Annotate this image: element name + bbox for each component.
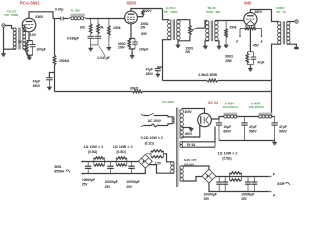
capacitor 10000uF (241, 177, 257, 201)
wire (205, 41, 209, 46)
wire (22, 25, 24, 27)
wire (131, 9, 163, 12)
transformer T4 F2357 (278, 21, 290, 44)
ground (156, 74, 160, 76)
wire (250, 30, 260, 52)
label RCA-5691 (20, 0, 41, 5)
svg-text:250kΩ: 250kΩ (59, 59, 69, 63)
svg-text:47μF: 47μF (33, 80, 41, 84)
wire (163, 9, 170, 20)
capacitor 100uF (132, 39, 148, 52)
label 845F (277, 182, 290, 186)
wire (149, 165, 174, 174)
svg-text:750 : 500K: 750 : 500K (4, 13, 19, 17)
wire (54, 65, 56, 92)
svg-text:3K : 16: 3K : 16 (276, 10, 286, 14)
svg-text:FL-289: FL-289 (71, 8, 80, 12)
svg-text:25V: 25V (241, 197, 247, 201)
svg-text:2.6V: 2.6V (30, 33, 37, 37)
resistor 2.5kohm 50W (198, 73, 218, 82)
wire (182, 166, 210, 181)
wire (27, 52, 33, 57)
fuse (144, 124, 168, 127)
label TK527 (4, 9, 19, 16)
ground (272, 142, 276, 144)
arrow (81, 160, 83, 162)
ground (176, 45, 180, 47)
wire (249, 65, 251, 69)
wire (82, 161, 139, 163)
potentiometer 150ohm (185, 25, 196, 54)
svg-text:400V: 400V (185, 132, 193, 136)
wire B rail2 (55, 91, 272, 93)
label 7.5V (155, 161, 162, 165)
transformer T1 TK527 (13, 28, 26, 50)
label 6550 (127, 1, 137, 6)
capacitor 47uF 450V (146, 67, 163, 76)
resistor 1ohm pair (113, 145, 133, 166)
svg-text:480V: 480V (254, 10, 263, 14)
svg-text:GZ 34: GZ 34 (208, 101, 219, 105)
svg-text:25V: 25V (105, 185, 111, 189)
wire (237, 116, 259, 118)
capacitor 47uF 500V (241, 117, 257, 141)
ground (217, 47, 221, 49)
svg-text:1Ω 10W × 2: 1Ω 10W × 2 (83, 145, 103, 149)
choke L2 A-4004 (249, 102, 272, 118)
wire (287, 44, 297, 46)
label TB-46 (206, 6, 220, 14)
ground (89, 48, 93, 50)
transformer T5 core (176, 108, 178, 188)
resistor 3K (18, 40, 28, 52)
arrow (81, 172, 83, 174)
ground (27, 57, 31, 59)
wire (29, 12, 53, 19)
wire (163, 40, 171, 81)
ground (294, 47, 298, 50)
transformer T2 A-4714 (168, 19, 181, 40)
wire (82, 168, 146, 173)
output terminal (295, 20, 298, 23)
T5 heater winding L (171, 162, 175, 174)
ground (203, 46, 207, 48)
svg-text:5691: 5691 (54, 165, 61, 169)
svg-text:0.2Ω 10W × 2: 0.2Ω 10W × 2 (141, 136, 163, 140)
wire (197, 21, 208, 29)
svg-text:(0.1Ω): (0.1Ω) (145, 142, 154, 146)
bridge B1 (138, 154, 152, 168)
svg-text:0.47μ: 0.47μ (55, 8, 63, 12)
svg-text:2.5kΩ 50W: 2.5kΩ 50W (198, 73, 217, 77)
wire 400V tap2 (182, 125, 200, 137)
svg-text:750Ω : 2W: 750Ω : 2W (206, 10, 220, 14)
ground (224, 45, 228, 47)
wire (23, 49, 29, 57)
capacitor 47uF 500V (271, 117, 287, 141)
capacitor 10000uF (82, 162, 95, 187)
wire (164, 154, 175, 162)
wire (177, 20, 190, 26)
wire B rail1 (163, 80, 272, 82)
wire (129, 48, 135, 55)
svg-text:320V: 320V (144, 9, 153, 13)
svg-text:F: F (273, 193, 275, 197)
svg-text:PC-3004: PC-3004 (162, 100, 174, 104)
wire (54, 19, 56, 56)
AC plug (141, 115, 144, 127)
T5 5V winding (180, 142, 183, 148)
wire (215, 41, 219, 47)
wire (168, 116, 172, 126)
resistor 10k (80, 19, 92, 34)
svg-text:5K : 750Ω: 5K : 750Ω (164, 10, 178, 14)
capacitor 10000uF (245, 177, 251, 192)
svg-text:AC 100V: AC 100V (148, 119, 162, 123)
wire (3, 27, 5, 53)
svg-text:10k: 10k (80, 26, 86, 30)
svg-text:500V: 500V (249, 129, 258, 133)
svg-text:1Ω 10W × 2: 1Ω 10W × 2 (113, 145, 133, 149)
inductor FL-289 (68, 8, 86, 19)
capacitor 10000uF (204, 177, 229, 201)
svg-text:RCA-5691: RCA-5691 (20, 0, 41, 5)
svg-text:400V: 400V (184, 110, 192, 114)
wire (211, 117, 224, 120)
wire 400V tap (182, 109, 205, 115)
svg-text:845: 845 (244, 1, 252, 6)
svg-text:10000μF: 10000μF (82, 178, 95, 182)
ground (1, 54, 5, 56)
capacitor 47uF (247, 52, 264, 65)
svg-text:10000μF: 10000μF (126, 180, 139, 184)
svg-text:100μF: 100μF (36, 47, 45, 51)
resistor 250kohm (53, 55, 69, 65)
wire (209, 183, 269, 192)
tube V4 GZ34 (198, 113, 212, 127)
ground (107, 48, 111, 50)
capacitor 0.47uF (53, 8, 68, 21)
svg-text:F: F (273, 172, 275, 176)
svg-text:20W: 20W (118, 45, 124, 49)
ground (47, 87, 51, 89)
svg-text:450V: 450V (146, 72, 154, 76)
label A-4714 (164, 6, 178, 14)
capacitor 10000uF (216, 177, 222, 192)
svg-text:0.038μF: 0.038μF (67, 36, 79, 40)
svg-text:100μF: 100μF (139, 47, 148, 51)
wire (178, 35, 190, 45)
svg-text:600Ω: 600Ω (225, 55, 233, 59)
svg-text:250k: 250k (113, 26, 120, 30)
svg-text:845F: 845F (277, 182, 284, 186)
wire (246, 24, 255, 28)
wire (27, 32, 33, 41)
wire ground rail (219, 141, 275, 143)
wire F left (236, 29, 241, 45)
resistor 600ohm 20W (225, 52, 253, 65)
label AC 100V (148, 119, 162, 123)
svg-text:600V: 600V (223, 129, 232, 133)
input terminal J1 (2, 24, 5, 27)
svg-text:F: F (236, 40, 238, 44)
svg-text:10H 200mA: 10H 200mA (249, 105, 265, 109)
capacitor 10uF 600V (216, 119, 232, 141)
svg-text:25V: 25V (82, 183, 88, 187)
svg-text:10H 200mA: 10H 200mA (223, 105, 239, 109)
svg-text:(0.5Ω): (0.5Ω) (222, 157, 231, 161)
capacitor 47uF 450V (33, 73, 55, 89)
ground (130, 56, 134, 58)
choke L1 A-4004 (223, 102, 239, 118)
svg-text:F: F (261, 40, 263, 44)
label 2.6V (30, 33, 37, 37)
resistor 5k (97, 19, 104, 34)
svg-text:25V: 25V (126, 185, 132, 189)
svg-text:450V: 450V (33, 84, 41, 88)
svg-text:47μF: 47μF (257, 61, 264, 65)
label F2357 (276, 6, 286, 14)
tube V1 5691 (22, 18, 36, 32)
resistor 1ohm pair (83, 145, 104, 166)
svg-text:2W: 2W (185, 50, 190, 54)
label PC-3004 (162, 100, 174, 104)
ground (248, 69, 252, 71)
wire (86, 18, 124, 20)
svg-text:10000μF: 10000μF (105, 180, 118, 184)
svg-text:0.047μF: 0.047μF (97, 56, 109, 60)
tube V2 6550 (125, 11, 138, 24)
svg-text:250k: 250k (229, 25, 236, 29)
svg-text:10000μF: 10000μF (204, 192, 217, 196)
svg-text:85V: 85V (141, 32, 148, 36)
arrow (269, 172, 274, 177)
T5 HV secondary (180, 110, 184, 139)
svg-text:45V: 45V (253, 44, 260, 48)
resistor 100ohm (137, 9, 152, 30)
svg-text:7.5V: 7.5V (155, 161, 162, 165)
label 6.3V (184, 158, 196, 167)
ground (189, 129, 193, 131)
svg-text:500V: 500V (279, 129, 288, 133)
resistor 0.2ohm pair (141, 136, 164, 158)
capacitor 100uF (30, 41, 46, 56)
svg-text:47μF: 47μF (279, 125, 287, 129)
svg-text:47μF: 47μF (249, 125, 257, 129)
capacitor 10000uF (105, 162, 118, 189)
label 845 (244, 1, 252, 6)
capacitor 0.047uF (91, 34, 110, 60)
svg-text:1Ω 10W × 2: 1Ω 10W × 2 (218, 151, 238, 155)
T5 845 winding (180, 166, 184, 182)
wire (215, 20, 244, 22)
svg-text:25V: 25V (204, 197, 210, 201)
svg-text:10μF: 10μF (223, 125, 231, 129)
wire (287, 21, 295, 23)
T5 primary (172, 117, 174, 124)
wire 5V (182, 127, 216, 148)
wire (272, 116, 275, 118)
resistor 30kohm (130, 86, 143, 93)
resistor 1ohm pair (218, 151, 242, 181)
label GZ34 (208, 101, 219, 105)
bridge B2 (202, 169, 216, 183)
potentiometer hum (240, 27, 261, 29)
wire (129, 24, 148, 39)
resistor 250k (225, 21, 237, 46)
wire CT (182, 127, 192, 130)
wire F right (260, 29, 262, 45)
svg-text:10000μF: 10000μF (241, 192, 254, 196)
transformer T3 TB-46 (206, 21, 219, 42)
capacitor 10000uF (126, 162, 139, 189)
arrow (269, 190, 275, 197)
svg-text:30kΩ: 30kΩ (130, 86, 139, 90)
wire (250, 10, 279, 22)
wire (272, 44, 281, 116)
svg-text:5V 3A: 5V 3A (187, 143, 196, 147)
resistor 600ohm 20W (118, 39, 130, 50)
svg-text:5k: 5k (100, 25, 104, 29)
label 5691 6550H (54, 165, 70, 174)
wire (5, 26, 14, 29)
svg-text:(0.5Ω): (0.5Ω) (88, 150, 97, 154)
svg-text:236V: 236V (35, 15, 44, 19)
switch (144, 113, 168, 116)
tube V3 845 (244, 13, 257, 26)
svg-text:6550H: 6550H (54, 170, 64, 174)
wire (216, 176, 269, 178)
resistor 250k (108, 19, 121, 48)
label 236V (35, 15, 44, 19)
svg-text:20W: 20W (225, 59, 231, 63)
wire (4, 48, 17, 50)
svg-text:6550: 6550 (127, 1, 137, 6)
capacitor 0.038uF (67, 34, 94, 48)
svg-text:6.3V ×4T: 6.3V ×4T (184, 158, 196, 162)
label 480V (254, 10, 263, 14)
svg-text:(0.5Ω): (0.5Ω) (117, 150, 126, 154)
